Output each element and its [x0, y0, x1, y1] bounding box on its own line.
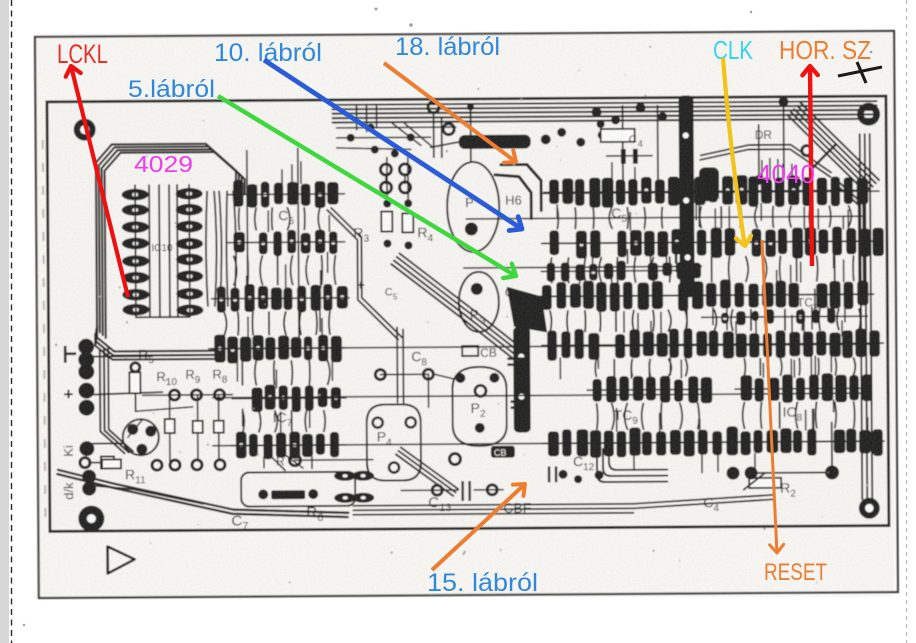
IC pad row E2b [734, 358, 872, 413]
IC pad row D1 [208, 316, 346, 382]
via pad [192, 460, 202, 470]
wire from connector 2 [92, 392, 162, 394]
wire right edge bundle [860, 134, 873, 499]
pad C8 right [423, 369, 433, 379]
wire bottom-left wide trace [57, 468, 348, 519]
wire horizontal lead line [213, 441, 875, 446]
trimmer P3 outline [459, 272, 499, 332]
via pad [399, 164, 410, 175]
wire [385, 176, 387, 184]
wire bundle rows E1-F1 [243, 410, 326, 433]
registration cross mark [838, 62, 882, 83]
IC 4029 pad column left [122, 189, 150, 316]
IC pad row A [543, 157, 869, 228]
wire C13 lead left [401, 489, 458, 491]
connector pad [78, 383, 94, 399]
capacitor C11 plates [549, 466, 556, 482]
wire bundle rows A-B right [557, 206, 680, 229]
capacitor C10 plates [507, 359, 527, 365]
wire vertical left of P2 b [402, 329, 405, 404]
pad R2 left2 [745, 466, 758, 479]
diagonal mark near 4040 [811, 144, 836, 169]
wire from connector [92, 355, 152, 357]
component square left edge [101, 456, 114, 468]
wire from connector 4 [89, 461, 113, 463]
pad below F2 3 [595, 471, 604, 480]
pad C13 right [487, 485, 497, 495]
capacitor CB symbol [462, 346, 497, 360]
via C13 left [289, 455, 300, 466]
IC pad row filler B2 [540, 241, 701, 293]
pad below R4 [404, 241, 412, 249]
wire 4040 top vertical [783, 107, 785, 175]
wire 4040 outline top [700, 144, 831, 177]
wire horizontal lead line [213, 393, 863, 398]
wire 4029 inner 3 [168, 185, 171, 317]
wire thick wedge center [507, 286, 547, 332]
svg-text:18. lábról: 18. lábról [395, 33, 500, 61]
wire stub um1 [355, 106, 357, 130]
via pad [428, 102, 439, 113]
wire vertical to row A 1 [656, 106, 659, 188]
speck pad [874, 447, 879, 452]
resistor R11 body [102, 459, 121, 468]
capacitor C13 symbol [463, 481, 470, 501]
via pad [191, 390, 201, 400]
IC pad row D2 [541, 309, 884, 381]
page left margin strip [0, 0, 9, 643]
wire thick vertical bundle center-bottom [513, 327, 531, 433]
wire bundle rows D1-E1 [242, 360, 330, 386]
wire C8 to P2 [434, 374, 454, 379]
pad above R3 [383, 200, 391, 208]
IC pad row F1 [230, 411, 347, 470]
wire stub diag 2 [405, 123, 433, 147]
resistor R8 body [214, 421, 224, 433]
connector pad [82, 482, 96, 496]
svg-text:4029: 4029 [134, 151, 193, 177]
svg-text:RESET: RESET [764, 559, 827, 586]
svg-text:HOR. SZ: HOR. SZ [779, 35, 871, 65]
pad [754, 175, 764, 185]
wire bundle rows H-I [239, 207, 321, 231]
wire center vertical [433, 113, 435, 157]
wire bundle rows I-J [234, 255, 336, 286]
pad above R4 [404, 199, 412, 207]
wire nested U loops below row F2 [597, 448, 668, 482]
connector pad [78, 339, 94, 355]
resistor R2 body [743, 473, 781, 490]
wire stub um3 [375, 106, 377, 128]
pad R2 right [825, 465, 839, 479]
wire center diagonal bundle [391, 253, 522, 361]
IC pad row F2 [542, 406, 885, 475]
wire above P1 [469, 105, 471, 161]
mounting hole top-left [74, 119, 96, 141]
solder blob row top-center [459, 128, 606, 150]
svg-text:4040: 4040 [757, 159, 815, 189]
wire horizontal lead line [542, 294, 874, 296]
wire 4029 outline loop [96, 144, 246, 338]
svg-text:15. lábról: 15. lábról [427, 569, 538, 597]
resistor R10 body [165, 419, 175, 433]
connector pad [78, 352, 94, 368]
wire R2 right vertical [831, 422, 833, 466]
wire bundle rows C-D2 [550, 309, 687, 332]
wire R3 up [386, 158, 388, 204]
mounting hole top-right [857, 103, 880, 126]
via pad [214, 390, 224, 400]
connector pad [79, 400, 95, 416]
svg-text:5.lábról: 5.lábról [128, 76, 215, 103]
pad R2 left [727, 467, 740, 480]
resistor R5 body [129, 372, 140, 393]
wire left bundle down [100, 347, 133, 453]
pad um5 [391, 149, 399, 157]
wire 4029 inner 2 [158, 185, 161, 317]
pad um2 [367, 124, 375, 132]
wire C8 link [380, 373, 428, 375]
wire bundle rows B-C [551, 256, 689, 283]
trimmer P2 outline [452, 367, 507, 446]
scan speckles [53, 44, 869, 588]
via C13 right [449, 454, 460, 465]
wire top edge bundle [332, 101, 876, 122]
resistor R6 body [271, 490, 305, 499]
wire horizontal lead line [464, 266, 702, 268]
IC pad row J [211, 264, 350, 333]
wire stub diag 1 [393, 123, 421, 145]
trimmer P1 outline [447, 162, 500, 252]
scan smudge left gutter [43, 140, 46, 520]
arrow 15.labrol orange [432, 484, 525, 570]
wire bundle rows D2-E2 2 [744, 357, 855, 376]
capacitor C4 symbol [606, 149, 653, 164]
wire thick vertical bundle center-right [678, 95, 694, 297]
symbol T left edge [65, 346, 76, 363]
IC pad row filler C2 [701, 288, 868, 340]
pad below F2 2 [574, 475, 582, 483]
wire 4029 bottom loop [95, 325, 215, 360]
oval pads bottom center-left [334, 471, 374, 503]
wire bent trace near H6 1 [501, 164, 541, 210]
page right faint dashed border [906, 0, 908, 643]
svg-text:CLK: CLK [713, 35, 754, 65]
wire 4040 top vertical 2 [758, 125, 760, 177]
connector pad [78, 364, 94, 380]
arrow 18.labrol orange [384, 63, 516, 163]
wire vertical left of P2 [396, 327, 399, 402]
via ki [80, 458, 90, 468]
wire bottom edge bundle [353, 504, 633, 515]
pad C13 left [432, 485, 442, 495]
wire bent trace near H6 2 [495, 175, 531, 219]
wire top-right chamfer bundle [788, 102, 879, 193]
wire bundle rows J-D1 [224, 311, 330, 336]
connector pad [82, 470, 96, 484]
wire R5-R9 [136, 407, 193, 411]
wire P4 to C13 bundle [396, 447, 458, 496]
wire center vertical 2 [441, 117, 443, 157]
wire [218, 395, 220, 421]
wire bundle rows E2-F2 2 [743, 401, 855, 429]
IC pad row E1 [231, 369, 346, 429]
wire 4029 inner 4 [176, 185, 179, 317]
wire horizontal lead line [212, 344, 874, 349]
wire 4029 column link [135, 185, 190, 317]
via pad [170, 460, 180, 470]
wire R7 stub 1 [283, 453, 303, 468]
resistor R9 body [193, 421, 203, 433]
wire bundle rows A-B right2 [700, 205, 852, 228]
pad um1 [347, 134, 355, 142]
IC pad row E2a [586, 359, 712, 404]
wire [218, 433, 220, 461]
wire R2 right lead [757, 471, 827, 473]
solder blob right of bundle [699, 167, 719, 201]
via pad [400, 182, 411, 193]
IC pad row H [227, 161, 345, 209]
wire upper middle 1 [337, 126, 456, 129]
arrow LCKL red [66, 66, 128, 297]
IC 4029 pad column right [176, 188, 204, 316]
wire R5 down [134, 393, 136, 411]
mounting hole bottom-left [78, 506, 104, 532]
component CB2 box [491, 446, 515, 458]
pad R6 left [258, 489, 268, 499]
wire bottom edge bundle 2 [633, 495, 773, 508]
PCB board outline [47, 96, 889, 531]
wire upper middle 3 [337, 147, 411, 150]
wire vertical to row A 2 [621, 106, 624, 184]
resistor R3 body [381, 212, 392, 232]
wire long vertical 2 [247, 151, 248, 297]
wire C13 lead right [474, 489, 503, 491]
pad below F2 1 [559, 470, 568, 479]
trace loop bottom-left box [241, 472, 355, 507]
component outline top-center [601, 129, 635, 142]
transistor P4 outline [367, 404, 422, 480]
IC pad row I [227, 210, 345, 274]
wire from connector 3 [93, 442, 123, 444]
IC pad row B [543, 205, 884, 274]
wire left-center diagonal [327, 207, 402, 340]
pad R5 top [131, 363, 140, 372]
IC pad row C [536, 259, 869, 331]
wire C8 down [427, 374, 429, 407]
mounting hole bottom-right [859, 498, 880, 519]
via pad [215, 460, 225, 470]
solder blobs on top bundle [591, 102, 693, 128]
page left dashed border [11, 0, 13, 643]
wire horizontal lead line [541, 191, 879, 193]
via pad [443, 124, 454, 135]
wire C13 link [295, 459, 373, 462]
arrow 5.labrol green [218, 96, 516, 278]
wire 4040 outline right [833, 180, 864, 295]
via pad [169, 390, 179, 400]
wire stub um2 [365, 106, 367, 132]
wire [404, 175, 406, 183]
via pad [380, 164, 391, 175]
transistor T1 outline [123, 419, 159, 455]
wire bundle rows B-C 2 [712, 255, 854, 282]
wire [431, 142, 459, 147]
wire upper middle 2 [337, 136, 431, 139]
wire [169, 395, 171, 419]
pad [790, 177, 801, 188]
wire 4029 inner 1 [148, 185, 151, 317]
via [802, 146, 812, 156]
pad R6 right [308, 489, 318, 499]
wire [197, 433, 199, 461]
capacitor plates pair 2 [511, 402, 531, 408]
wire bundle rows C-D2 2 [714, 308, 861, 331]
arrow HOR.SZ red [802, 66, 817, 266]
wire [169, 433, 171, 461]
wire R4 up [407, 157, 409, 203]
pad below R3 [383, 240, 391, 248]
via pad [381, 182, 392, 193]
resistor R4 body [402, 213, 413, 232]
wire bundle rows D2-E2 [595, 358, 687, 377]
triangle mark [108, 546, 135, 573]
wire [197, 395, 199, 421]
wire to T1 [128, 419, 143, 437]
wire R7 stub 2 [265, 450, 285, 470]
pad [778, 97, 788, 107]
wire long vertical 1 [298, 148, 299, 343]
pad above P1 [467, 103, 474, 110]
connector pad [79, 441, 94, 456]
via pad [152, 460, 162, 470]
pad C8 left [375, 370, 385, 380]
wire horizontal lead line [541, 241, 879, 243]
arrow RESET orange [762, 240, 784, 553]
wire bundle right of 4029 [206, 191, 237, 307]
svg-text:LCKL: LCKL [57, 39, 108, 69]
arrow CLK yellow [723, 58, 751, 246]
wire from connector 5 [93, 485, 203, 505]
wire bundle rows E2-F2 [597, 402, 700, 430]
pad um4 [371, 146, 379, 154]
wire horizontal lead line [466, 216, 863, 219]
arrow 10.labrol blue [264, 60, 522, 231]
wire row R tops [143, 394, 233, 397]
pad um3 [407, 133, 415, 141]
